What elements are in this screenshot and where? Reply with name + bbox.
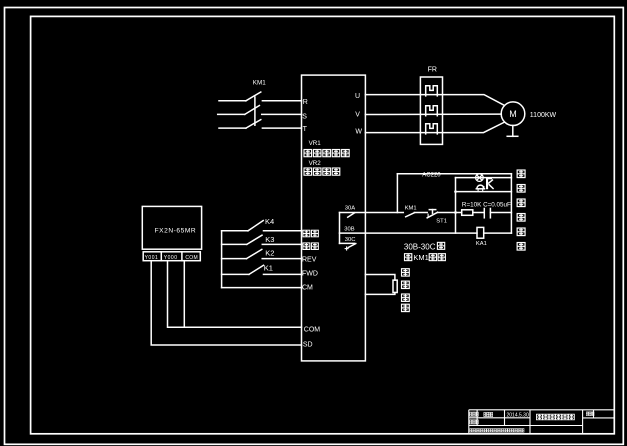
wire W phase to motor — [365, 122, 504, 132]
svg-text:KM1: KM1 — [253, 79, 266, 86]
ground under motor — [507, 126, 518, 137]
svg-text:30C: 30C — [345, 237, 356, 243]
motor M — [501, 102, 525, 126]
svg-text:1100KW: 1100KW — [530, 112, 557, 119]
switch K1 — [222, 263, 302, 274]
wire PLC Y001 to inverter SD — [151, 261, 301, 345]
lamp HL — [476, 174, 484, 182]
switch K3 — [222, 235, 302, 244]
svg-text:KM1: KM1 — [405, 206, 417, 212]
resistor R — [462, 210, 473, 216]
title block texts — [470, 412, 594, 424]
PLC output terminal strip — [143, 252, 200, 261]
wire to ST1 — [414, 212, 427, 214]
svg-text:30B-30C: 30B-30C — [404, 242, 436, 251]
svg-text:W: W — [355, 129, 362, 136]
heater element W — [426, 124, 438, 134]
svg-text:30A: 30A — [345, 206, 355, 212]
alarm box right — [510, 174, 512, 233]
thermal relay FR box — [420, 77, 442, 144]
node input bus — [221, 231, 223, 288]
contact 30C — [345, 244, 356, 251]
heater element V — [426, 106, 438, 116]
terminal 30C wire — [340, 242, 355, 244]
wire PLC COM down — [183, 261, 185, 328]
contactor KM1 pole R — [219, 92, 302, 101]
svg-text:AC220: AC220 — [422, 172, 441, 178]
svg-text:VR1: VR1 — [309, 140, 322, 147]
svg-text:30B: 30B — [344, 227, 354, 233]
svg-text:FWD: FWD — [302, 270, 318, 277]
bell HA — [476, 185, 484, 191]
svg-text:K4: K4 — [265, 217, 274, 226]
terminal reset (fu wei) — [303, 243, 318, 250]
wire resistor to capacitor — [473, 212, 484, 214]
svg-text:VR2: VR2 — [309, 160, 322, 167]
alarm box top — [456, 177, 512, 179]
svg-text:COM: COM — [304, 326, 321, 333]
svg-text:FX2N-65MR: FX2N-65MR — [155, 228, 197, 235]
contact 30A — [348, 213, 355, 217]
wire capacitor to box edge — [491, 212, 512, 214]
svg-text:CM: CM — [302, 284, 313, 291]
svg-text:R: R — [303, 99, 308, 106]
svg-text:Y000: Y000 — [164, 255, 178, 261]
PLC FX2N-65MR — [142, 206, 201, 249]
svg-text:COM: COM — [185, 255, 198, 261]
alarm inner rail — [456, 191, 512, 193]
capacitor C — [484, 209, 490, 218]
contactor KM1 linkage — [254, 97, 256, 125]
wire V phase to motor — [365, 113, 501, 115]
svg-text:SD: SD — [303, 342, 313, 349]
svg-text:KM1: KM1 — [413, 253, 428, 262]
text main speed reference — [304, 149, 349, 156]
label sound-light alarm circuit (vertical) — [517, 170, 525, 250]
svg-text:S: S — [302, 113, 307, 120]
wire U phase to motor — [365, 95, 504, 106]
contactor KM1 pole T — [219, 120, 302, 129]
contact KM1 auxiliary — [405, 206, 417, 217]
relay coil KA1 — [476, 227, 487, 247]
wire PLC Y000 to inverter COM — [168, 261, 302, 328]
label lamp/bell — [483, 177, 494, 189]
terminal 30B wire / bottom rail — [340, 232, 478, 234]
svg-text:2014.5.30: 2014.5.30 — [507, 413, 529, 419]
svg-text:KA1: KA1 — [476, 241, 487, 247]
terminal 30A wire / alarm main wire — [340, 212, 404, 214]
switch K2 — [222, 249, 302, 259]
alarm box left — [455, 178, 457, 234]
heater element U — [426, 86, 438, 96]
inverter VFD main unit — [302, 75, 366, 361]
svg-text:K2: K2 — [265, 249, 274, 258]
wire CM common — [222, 287, 302, 289]
contactor KM1 pole S — [218, 106, 302, 115]
label braking resistor (vertical) — [402, 269, 410, 312]
wire dropline — [396, 174, 398, 213]
svg-text:V: V — [355, 111, 360, 118]
braking resistor wiring — [365, 275, 395, 281]
braking resistor return wire — [365, 293, 395, 295]
svg-text:T: T — [303, 126, 308, 133]
braking resistor body — [393, 280, 397, 292]
svg-text:FR: FR — [428, 66, 437, 73]
wire AC220 rail — [397, 173, 511, 175]
terminal jog (dian dong) — [303, 230, 318, 237]
title block — [469, 410, 615, 434]
text auxiliary reference — [304, 168, 340, 175]
svg-text:M: M — [509, 109, 517, 119]
junction node — [454, 211, 457, 214]
svg-text:K3: K3 — [265, 235, 274, 244]
pushbutton ST1 — [427, 210, 447, 225]
svg-text:K1: K1 — [264, 263, 273, 272]
relay pole wire — [339, 213, 341, 244]
switch K4 — [222, 217, 302, 231]
svg-text:REV: REV — [302, 256, 317, 263]
junction node inner rail — [454, 190, 457, 193]
bottom rail right of coil — [484, 232, 512, 234]
wire ST1 to resistor — [438, 212, 462, 214]
svg-text:R=10K C=0.05uF: R=10K C=0.05uF — [462, 201, 511, 208]
institution name — [470, 429, 524, 433]
note 30B-30C line2 — [404, 253, 445, 262]
note 30B-30C line1 — [404, 242, 445, 251]
svg-text:ST1: ST1 — [436, 219, 447, 225]
svg-text:U: U — [355, 93, 360, 100]
